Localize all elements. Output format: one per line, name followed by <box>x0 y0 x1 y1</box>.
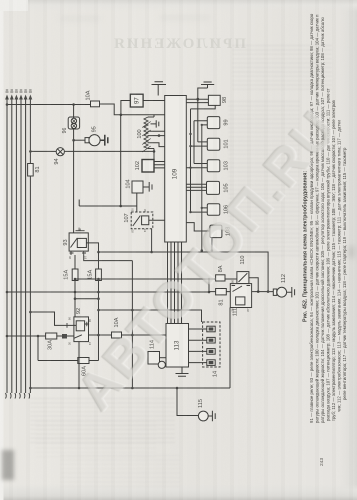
wire 107 to 109 <box>149 219 165 221</box>
wire 96 down to relay 93 <box>73 129 75 233</box>
injector 1 <box>207 326 215 332</box>
crankshaft sensor 104 <box>125 179 143 193</box>
wire lamp 94 line <box>29 150 155 153</box>
fuel pump 112 <box>273 274 287 297</box>
wire 110 out down <box>249 278 260 293</box>
sensor 98 <box>208 95 228 105</box>
sensor 99 <box>207 117 229 129</box>
controller 109 <box>165 96 187 243</box>
wire from bus line 6 to relay 92 coil <box>29 311 67 328</box>
wires 109 down to ignition module 113 <box>168 242 182 324</box>
relay 93 <box>63 229 88 256</box>
wire into relay 107 from left <box>79 200 137 207</box>
wire relay 92 ground stub <box>78 342 81 390</box>
fuse 81 (lower) <box>216 289 227 306</box>
wire H4 from bus line 1 <box>6 291 209 294</box>
wires 102 to 109 <box>154 162 165 168</box>
ground right of 95 <box>100 135 108 146</box>
ground above 98 <box>201 82 214 88</box>
fuse 10A (ignition module) <box>112 317 122 338</box>
sensor 106 <box>207 204 229 216</box>
wire down to speed sensor 115 <box>177 388 198 416</box>
wire 96 stub to feeder <box>73 105 75 119</box>
wire: main feeder from bus line 1 <box>6 103 165 116</box>
wires coils to 109 <box>148 131 165 146</box>
ground right of 115 <box>208 411 215 421</box>
lamp 94 CHECK ENGINE <box>54 148 64 165</box>
fuse 15A (right) <box>87 269 101 281</box>
fuse 8A <box>216 265 225 281</box>
camshaft sensor 102 <box>135 160 154 173</box>
ignition module 113 <box>166 324 189 368</box>
show-through of reverse page title <box>0 0 28 11</box>
sensor 103 <box>207 160 229 172</box>
fuse 81 on bus line 6 <box>28 164 41 177</box>
injector 4 <box>207 360 215 366</box>
connector 114 <box>148 340 166 368</box>
relay 107 (dashed) <box>124 208 153 233</box>
diagnostic connector 97 <box>130 94 143 107</box>
injector block 14 (dashed) <box>203 322 220 377</box>
wires to 99 <box>194 121 207 251</box>
wire 108 bottom to node <box>201 238 214 252</box>
fuse 10A (top feeder) <box>85 90 99 107</box>
wire 93 coil to node <box>86 243 99 253</box>
bus supply lines <box>5 90 32 399</box>
ground above controller 109 <box>152 82 167 96</box>
wire 104 down to relay 107 <box>136 193 138 212</box>
ground right of 112 <box>287 287 295 297</box>
wire fuse feed node <box>208 278 237 294</box>
sensor 105 <box>207 181 230 194</box>
wire from 107 down to H1 <box>151 229 153 252</box>
wires to 103 <box>186 164 207 169</box>
wire through fuse 15A right down <box>97 252 100 361</box>
sensor 101 <box>207 138 229 150</box>
wires 109 to 105 <box>186 184 206 190</box>
wire H3 fuse feed <box>75 278 209 281</box>
ground right of 104 <box>143 182 152 192</box>
wires to 106 <box>189 207 207 214</box>
wire 111 to pump 112 <box>252 290 277 293</box>
wire 30A line from bus line 1 <box>6 334 74 339</box>
speed sensor 115 <box>198 399 208 421</box>
ground right of coils <box>151 120 159 127</box>
pump motor 95 <box>72 126 100 146</box>
fuse 15A (left) <box>63 269 78 281</box>
fuse 60A <box>78 358 89 376</box>
wire long feed H1 <box>99 251 269 292</box>
fuel pump relay contact 110 <box>237 256 249 284</box>
sensor 108 <box>210 225 232 238</box>
injector 2 <box>207 337 215 343</box>
ignition coils 100 <box>137 115 154 160</box>
wire connector between 15A fuse outputs <box>74 297 100 300</box>
injector 3 <box>207 349 215 355</box>
relay 92 (main) <box>67 308 89 342</box>
wire through fuse 81 to relay 111 <box>209 291 230 293</box>
wire 111 down to bottom line <box>229 308 231 389</box>
wire 30A down to 60A line <box>37 336 39 361</box>
wire 109 to 98 <box>186 88 208 103</box>
wire 93 switch out H2 <box>84 255 133 388</box>
wire 98 bottom loop <box>189 105 215 212</box>
wire long bottom line <box>29 387 230 390</box>
wires to 101 <box>189 99 207 147</box>
starter relay 111 <box>230 284 251 317</box>
wire 109 to 108 <box>186 223 210 231</box>
wire through fuse 15A left <box>74 255 77 317</box>
ground under 113 <box>176 367 189 376</box>
wire relay 92 switch out with fuse 10A <box>89 334 167 337</box>
fuse 30A <box>46 333 57 350</box>
relay 96 <box>62 117 79 133</box>
wire 97 to feeder <box>121 101 165 115</box>
wire 60A line <box>38 360 99 362</box>
wire injector feed H <box>99 309 202 322</box>
wires 113 to injectors <box>189 329 207 363</box>
